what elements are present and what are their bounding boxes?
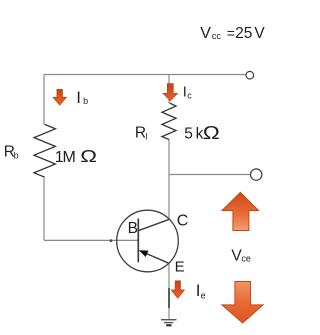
svg-text:e: e: [201, 291, 206, 301]
svg-text:b: b: [83, 96, 88, 106]
svg-text:E: E: [175, 258, 185, 275]
wire collector branch upper: [168, 75, 170, 104]
wire collector branch lower: [168, 140, 170, 220]
svg-text:5: 5: [184, 126, 193, 143]
svg-text:l: l: [145, 131, 147, 141]
block arrow down (Vce falling): [222, 282, 263, 324]
current arrow I_b: [53, 89, 67, 105]
svg-text:M: M: [63, 149, 76, 166]
transistor Q1 emitter lead: [143, 252, 169, 263]
wire left branch lower: [43, 177, 45, 240]
wire emitter: [168, 263, 170, 319]
svg-text:Ω: Ω: [80, 147, 97, 166]
junction dot on base wire: [110, 239, 113, 242]
svg-text:2: 2: [235, 25, 244, 42]
wire left branch upper: [43, 75, 45, 125]
block arrow up (Vce rising): [222, 192, 259, 230]
svg-text:c: c: [187, 91, 192, 101]
svg-text:5: 5: [244, 25, 253, 42]
terminal middle right: [251, 169, 262, 180]
svg-text:V: V: [254, 25, 265, 42]
svg-text:b: b: [14, 150, 19, 160]
transistor Q1 emitter arrowhead: [139, 250, 149, 257]
svg-text:V: V: [200, 25, 211, 42]
svg-text:=: =: [227, 25, 235, 41]
current arrow I_e: [171, 281, 184, 299]
wire base: [44, 239, 138, 241]
svg-text:ce: ce: [241, 254, 251, 264]
svg-text:C: C: [177, 213, 189, 230]
ground: [161, 320, 177, 326]
svg-text:I: I: [76, 88, 81, 107]
svg-text:cc: cc: [212, 31, 222, 41]
wire collector output: [169, 174, 250, 176]
svg-text:Ω: Ω: [203, 123, 220, 143]
resistor R_l zigzag: [162, 103, 176, 140]
resistor R_b zigzag: [34, 124, 55, 177]
transistor Q1 body circle: [117, 210, 179, 272]
terminal top right: [246, 71, 254, 79]
svg-text:B: B: [128, 220, 138, 237]
transistor Q1 collector lead: [138, 219, 169, 230]
current arrow I_c: [163, 84, 178, 101]
transistor Q1 base bar: [137, 219, 139, 263]
svg-text:I: I: [183, 84, 187, 100]
wire emitter dark overlap: [168, 288, 170, 308]
wire top rail: [44, 74, 246, 76]
